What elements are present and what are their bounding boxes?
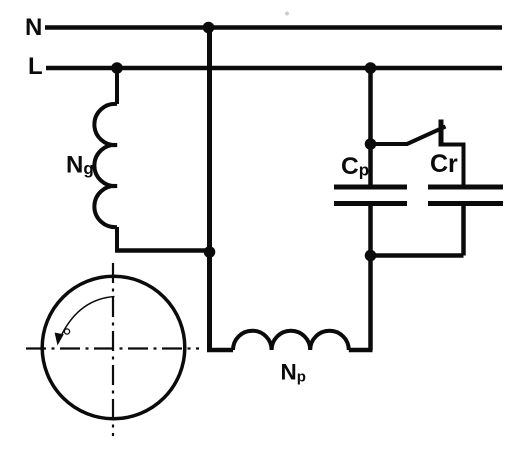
node: switch pole junction bbox=[365, 138, 377, 150]
svg-text:Ng: Ng bbox=[66, 152, 94, 179]
svg-text:Np: Np bbox=[281, 360, 306, 386]
junction on L bus at right branch bbox=[365, 62, 377, 74]
capacitor Cp top plate bbox=[334, 185, 407, 190]
wire: Cp bottom lead down to Np right end bbox=[368, 204, 373, 351]
centerline: vertical dash-dot axis of motor bbox=[112, 263, 114, 436]
junction on N bus at middle branch bbox=[203, 22, 215, 34]
capacitor Cp bottom plate bbox=[334, 201, 407, 206]
wire: switch pole horizontal bbox=[371, 142, 409, 146]
wire: from switch contact right and down to Cr top plate bbox=[441, 145, 464, 189]
motor M (machine body circle) bbox=[42, 276, 185, 419]
svg-text:L: L bbox=[28, 53, 43, 80]
capacitor Cr top plate bbox=[428, 185, 503, 190]
wire: Np left horizontal stub bbox=[207, 348, 233, 353]
capacitor Cr bottom plate bbox=[428, 201, 503, 206]
stray mark bbox=[285, 12, 289, 16]
junction of Ng return with middle vertical bbox=[204, 246, 216, 258]
svg-text:Cp: Cp bbox=[341, 153, 369, 180]
wire: N bus line bbox=[45, 25, 502, 30]
rotation arrow arc bbox=[62, 297, 115, 335]
junction on L bus at Ng branch bbox=[111, 62, 123, 74]
wire: Cr bottom lead bbox=[461, 204, 466, 256]
wire: L bus line bbox=[46, 66, 502, 71]
inductor Np bbox=[233, 331, 349, 350]
centerline: horizontal dash-dot axis of motor bbox=[26, 347, 199, 349]
wire: Np right horizontal stub bbox=[349, 348, 373, 353]
wire: Ng bottom horizontal to middle node bbox=[115, 248, 210, 253]
wire: Ng bottom lead bbox=[115, 227, 119, 249]
wire: right branch vertical from L bus to Cp top plate bbox=[368, 68, 373, 187]
switch fixed contact bar and lead bbox=[439, 120, 444, 147]
rotation arrow head bbox=[55, 333, 64, 346]
junction of capacitor returns bbox=[365, 250, 377, 262]
rotation symbol small loop bbox=[64, 329, 69, 334]
wire: capacitor bottom horizontal tie bbox=[371, 253, 464, 258]
svg-text:N: N bbox=[25, 14, 42, 41]
switch blade (open) bbox=[407, 127, 446, 145]
wire: middle vertical from N bus down to Np left end bbox=[207, 28, 212, 352]
inductor Ng bbox=[94, 104, 117, 227]
wire: Ng top lead from L bus bbox=[115, 68, 119, 104]
svg-text:Cr: Cr bbox=[430, 150, 458, 178]
